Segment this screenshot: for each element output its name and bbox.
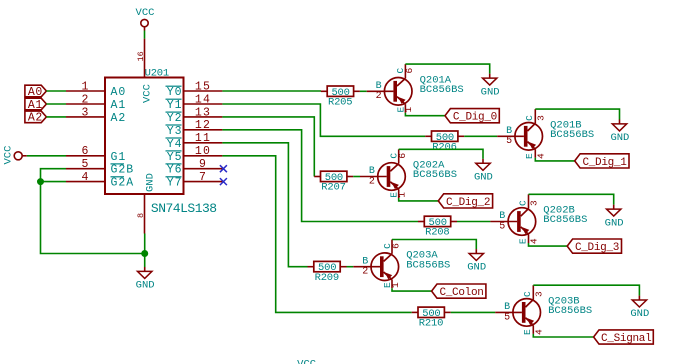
label Q201B reference and value: [550, 119, 594, 141]
svg-text:BC856BS: BC856BS: [543, 214, 587, 226]
pin 11 (Y4) of U201: [166, 132, 223, 151]
wire Y5 to R210: [222, 156, 411, 313]
pin 10 (Y5) of U201: [166, 145, 223, 164]
ground GND at Q203A collector: [467, 249, 486, 274]
svg-text:GND: GND: [481, 86, 500, 98]
svg-text:1: 1: [390, 282, 401, 288]
wire Q201B emitter to C_Dig_1: [535, 158, 574, 161]
svg-text:C_Dig_1: C_Dig_1: [582, 157, 627, 169]
svg-text:VCC: VCC: [3, 146, 15, 165]
svg-text:2: 2: [362, 267, 368, 278]
no-connect cross on pin Y7: [220, 178, 227, 185]
svg-text:C_Dig_2: C_Dig_2: [446, 197, 490, 209]
pin 2 (A1) of U201: [66, 93, 126, 112]
pin 13 (Y2) of U201: [166, 106, 223, 125]
wire R208 to Q202B base: [457, 221, 490, 223]
wire Q202B emitter to C_Dig_3: [529, 243, 568, 246]
svg-text:Y3: Y3: [167, 125, 183, 138]
svg-text:C_Dig_3: C_Dig_3: [575, 242, 619, 254]
hierarchical label C_Dig_2 (net C_Dig_2): [438, 194, 492, 209]
pin 6 (G1) of U201: [66, 145, 126, 164]
resistor R207 500: [314, 171, 353, 194]
hierarchical label C_Signal (net C_Signal): [594, 330, 654, 345]
wire A0 to pin 1: [46, 90, 66, 92]
pin 15 (Y0) of U201: [166, 80, 223, 99]
svg-text:Y0: Y0: [167, 86, 183, 99]
svg-text:5: 5: [499, 221, 505, 232]
wire R207 to Q202A base: [353, 176, 360, 178]
label Q203B reference and value: [548, 295, 592, 317]
svg-text:U201: U201: [145, 67, 169, 79]
wire Y2 to R207: [222, 117, 314, 177]
svg-text:G1: G1: [111, 151, 127, 164]
wire Y4 to R209: [222, 143, 307, 267]
svg-text:5: 5: [81, 158, 89, 171]
svg-text:Y1: Y1: [167, 99, 183, 112]
hierarchical label C_Colon (net C_Colon): [432, 284, 486, 299]
wire R209 to Q203A base: [347, 266, 354, 268]
svg-text:E: E: [522, 329, 533, 335]
svg-text:16: 16: [136, 51, 146, 61]
svg-text:GND: GND: [605, 217, 624, 229]
svg-text:BC856BS: BC856BS: [413, 169, 457, 181]
svg-text:E: E: [517, 238, 528, 244]
svg-text:4: 4: [81, 171, 89, 184]
svg-text:GND: GND: [136, 280, 155, 292]
svg-text:GND: GND: [474, 172, 493, 184]
wire Q201A collector to ground: [405, 64, 489, 74]
svg-text:Y5: Y5: [167, 151, 183, 164]
svg-text:GND: GND: [145, 173, 157, 192]
wire Q202A collector to ground: [399, 149, 483, 159]
wire R206 to Q201B base: [464, 135, 497, 137]
hierarchical label A2 (net A2): [25, 111, 47, 125]
svg-text:A0: A0: [111, 86, 127, 99]
label Q202A reference and value: [413, 160, 457, 182]
pin 4 (G2A) of U201: [66, 171, 134, 190]
svg-text:Y7: Y7: [167, 177, 183, 190]
no-connect cross on pin Y6: [220, 165, 227, 172]
wire Q203A collector to ground: [392, 240, 476, 250]
svg-text:3: 3: [529, 200, 540, 206]
wire Q203B emitter to C_Signal: [533, 334, 593, 337]
svg-text:C: C: [522, 291, 533, 297]
wire R205 to Q201A base: [360, 90, 367, 92]
svg-text:5: 5: [504, 312, 510, 323]
svg-text:E: E: [524, 153, 535, 159]
svg-text:2: 2: [369, 176, 375, 187]
wire Y1 to R206: [222, 104, 425, 136]
svg-text:1: 1: [81, 80, 89, 93]
hierarchical label C_Dig_0 (net C_Dig_0): [445, 109, 499, 124]
svg-text:BC856BS: BC856BS: [420, 84, 464, 96]
svg-text:1: 1: [397, 192, 408, 198]
svg-text:4: 4: [529, 238, 540, 244]
svg-text:A2: A2: [111, 112, 127, 125]
pin 12 (Y3) of U201: [166, 119, 223, 138]
label Q201A reference and value: [420, 74, 464, 96]
svg-text:G2A: G2A: [111, 177, 135, 190]
wire Q202A emitter to C_Dig_2: [399, 198, 439, 201]
svg-text:13: 13: [195, 106, 211, 119]
svg-text:R207: R207: [321, 182, 345, 194]
pin 1 (A0) of U201: [66, 80, 126, 99]
label Q202B reference and value: [543, 205, 587, 227]
svg-text:R208: R208: [425, 227, 449, 239]
wire A2 to pin 3: [46, 116, 66, 118]
svg-text:6: 6: [390, 243, 401, 249]
svg-text:A0: A0: [28, 86, 43, 99]
pin 5 (G2B) of U201: [66, 158, 134, 177]
wire VCC to pin 16: [144, 31, 146, 39]
svg-text:4: 4: [533, 329, 544, 335]
wire pin 8 to ground: [144, 234, 146, 268]
ground GND at Q201B collector: [610, 120, 629, 145]
svg-text:4: 4: [535, 153, 546, 159]
hierarchical label A0 (net A0): [25, 85, 47, 99]
svg-text:R206: R206: [432, 142, 456, 154]
svg-text:C_Signal: C_Signal: [601, 333, 651, 345]
ground GND at Q203B collector: [630, 296, 649, 321]
svg-text:14: 14: [195, 93, 211, 106]
power symbol VCC (left): [3, 146, 27, 165]
transistor Q203A BC856BS (PNP): [353, 240, 401, 289]
svg-text:Y4: Y4: [167, 138, 183, 151]
transistor Q202B BC856BS (PNP): [490, 194, 539, 244]
wire A1 to pin 2: [46, 103, 66, 105]
svg-text:3: 3: [533, 291, 544, 297]
svg-text:C_Dig_0: C_Dig_0: [453, 112, 497, 124]
svg-text:BC856BS: BC856BS: [550, 129, 594, 141]
junction at G2A tap: [38, 179, 44, 185]
label Q203A reference and value: [406, 250, 450, 272]
junction at ground net: [142, 251, 148, 257]
svg-text:A1: A1: [28, 99, 43, 112]
pin 9 (Y6) of U201: [166, 158, 223, 177]
wire Y0 to R205: [222, 90, 321, 92]
svg-text:R205: R205: [328, 97, 352, 109]
svg-text:15: 15: [195, 80, 211, 93]
wire Q203B collector to ground: [533, 285, 639, 295]
transistor Q203B BC856BS (PNP): [495, 285, 544, 335]
pin 7 (Y7) of U201: [166, 171, 223, 190]
svg-text:A1: A1: [111, 99, 127, 112]
IC U201 SN74LS138 body: [105, 78, 184, 195]
ground GND at U201 pin 8: [136, 267, 155, 292]
svg-text:3: 3: [81, 106, 89, 119]
resistor R208 500: [418, 216, 457, 239]
svg-text:GND: GND: [630, 308, 649, 320]
wire R210 to Q203B base: [451, 311, 496, 313]
svg-text:Y2: Y2: [167, 112, 183, 125]
svg-text:2: 2: [376, 91, 382, 102]
wire Q201A emitter to C_Dig_0: [405, 113, 445, 116]
svg-text:SN74LS138: SN74LS138: [151, 201, 217, 216]
svg-text:C: C: [524, 115, 535, 121]
svg-text:7: 7: [199, 171, 207, 184]
svg-text:C_Colon: C_Colon: [439, 287, 483, 299]
svg-text:11: 11: [195, 132, 211, 145]
svg-text:12: 12: [195, 119, 211, 132]
svg-text:BC856BS: BC856BS: [406, 259, 450, 271]
svg-text:GND: GND: [467, 262, 486, 274]
svg-text:8: 8: [136, 213, 146, 218]
svg-text:Y6: Y6: [167, 164, 183, 177]
wire pin 4 (G2A) to left bus: [41, 181, 67, 183]
resistor R210 500: [412, 307, 451, 330]
hierarchical label C_Dig_1 (net C_Dig_1): [575, 154, 629, 169]
svg-text:G2B: G2B: [111, 164, 135, 177]
svg-text:R210: R210: [419, 318, 443, 330]
wire Y3 to R208: [222, 130, 418, 222]
svg-text:GND: GND: [610, 132, 629, 144]
wire Q203A emitter to C_Colon: [392, 288, 432, 291]
ground GND at Q202B collector: [605, 205, 624, 230]
svg-text:3: 3: [535, 115, 546, 121]
svg-text:C: C: [517, 200, 528, 206]
svg-text:2: 2: [81, 93, 89, 106]
svg-text:6: 6: [404, 67, 415, 73]
wire Q202B collector to ground: [529, 194, 614, 204]
svg-text:VCC: VCC: [297, 359, 316, 364]
wire pin 5 (G2B) to left bus: [41, 169, 145, 254]
transistor Q202A BC856BS (PNP): [360, 149, 408, 198]
transistor Q201A BC856BS (PNP): [367, 64, 415, 113]
pin 3 (A2) of U201: [66, 106, 126, 125]
power symbol VCC (top): [136, 7, 155, 30]
pin 8 (GND) of U201: [136, 173, 157, 233]
hierarchical label C_Dig_3 (net C_Dig_3): [567, 239, 621, 254]
wire Q201B collector to ground: [535, 109, 619, 119]
svg-text:5: 5: [506, 136, 512, 147]
resistor R205 500: [321, 86, 360, 109]
svg-text:VCC: VCC: [136, 7, 155, 19]
ground GND at Q201A collector: [481, 74, 500, 99]
svg-text:R209: R209: [315, 272, 339, 284]
resistor R209 500: [308, 261, 347, 284]
svg-text:1: 1: [403, 107, 414, 113]
ground GND at Q202A collector: [474, 159, 493, 184]
svg-text:10: 10: [195, 145, 211, 158]
svg-text:VCC: VCC: [142, 84, 154, 103]
svg-text:6: 6: [81, 145, 89, 158]
wire VCC to pin 6 (G1): [27, 155, 66, 157]
hierarchical label A1 (net A1): [25, 98, 47, 112]
svg-text:6: 6: [397, 153, 408, 159]
svg-text:9: 9: [199, 158, 207, 171]
svg-text:A2: A2: [28, 112, 43, 125]
svg-text:BC856BS: BC856BS: [548, 305, 592, 317]
transistor Q201B BC856BS (PNP): [497, 109, 546, 159]
resistor R206 500: [425, 131, 464, 154]
pin 16 (VCC) of U201: [136, 39, 154, 103]
pin 14 (Y1) of U201: [166, 93, 223, 112]
